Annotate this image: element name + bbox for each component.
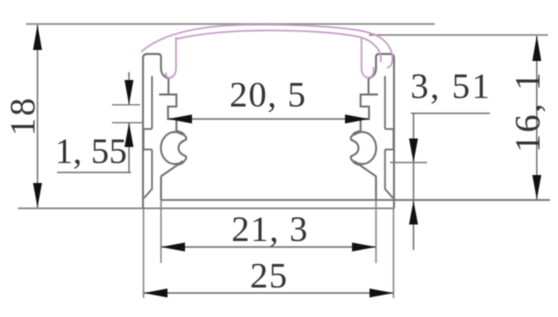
svg-text:1, 55: 1, 55: [55, 131, 127, 171]
arrow 3,51 upper (down): [409, 139, 418, 163]
svg-text:18: 18: [2, 96, 42, 136]
pink cover left clip leg + curl: [166, 37, 176, 78]
aluminum left cover-groove step: [161, 56, 169, 95]
svg-text:16, 1: 16, 1: [507, 71, 547, 153]
right lower inner face to base: [375, 176, 377, 200]
aluminum right wall top edge: [376, 54, 391, 57]
aluminum profile right wall outer: [390, 54, 394, 208]
arrow 21,3 right: [352, 243, 376, 252]
aluminum right cover-groove step: [369, 56, 377, 95]
extension line bottom full width (base bottom level): [18, 207, 394, 209]
dimension 21,3 line: [161, 246, 376, 248]
arrow 20,5 left: [168, 115, 192, 124]
dimension 1,55 lower arrow (up) + leader: [128, 123, 130, 173]
dimension 20,5 line: [168, 118, 369, 120]
dimension 3,51 leader: [411, 112, 490, 114]
left lower inner face to base: [160, 176, 162, 200]
svg-text:20, 5: 20, 5: [230, 75, 307, 115]
dimension 18 vertical line: [37, 25, 39, 208]
arrow 20,5 right: [345, 115, 369, 124]
extension line top-right (for dim 16,1): [369, 34, 548, 36]
3,51 tick at C bottom level: [390, 162, 427, 164]
aluminum right ledge + pcb slot + boss: [361, 95, 378, 132]
svg-text:21, 3: 21, 3: [232, 209, 309, 249]
arrow 16,1 bottom (down): [532, 175, 541, 200]
arrow 21,3 left: [161, 243, 185, 252]
base top inner floor (extends right as extension for 3,51): [161, 199, 550, 201]
right wall inner hidden line + notch: [385, 76, 394, 198]
dimension 25 line: [144, 292, 394, 294]
pink cover inner skin + left clip leg: [176, 30, 381, 62]
dimension 1,55 upper arrow (down): [128, 72, 130, 105]
arrow 18 bottom (down): [33, 183, 42, 208]
dimension 16,1 vertical line: [536, 36, 538, 200]
right C screw groove: [351, 131, 376, 176]
arrow 16,1 top (up): [532, 36, 541, 62]
svg-text:3, 51: 3, 51: [411, 66, 492, 106]
aluminum left wall top edge: [146, 54, 161, 57]
pink cover outer skin: [141, 25, 392, 68]
arrow 18 top (up): [33, 25, 42, 51]
aluminum profile left wall outer: [143, 54, 147, 208]
arrow 25 right: [370, 289, 394, 298]
aluminum left ledge + pcb slot + boss: [159, 95, 176, 132]
extension verticals below base: [143, 208, 145, 298]
dimension 1,55 ticks: [112, 104, 140, 106]
pink cover right clip leg + curl: [362, 38, 374, 78]
arrow 25 left: [144, 289, 168, 298]
svg-text:25: 25: [250, 256, 288, 296]
extension line top-left (top of cover, for dim 18): [26, 23, 435, 25]
arrow 3,51 lower (up): [409, 201, 418, 225]
left C screw groove: [161, 131, 186, 176]
left wall inner hidden line + notch: [144, 76, 153, 198]
